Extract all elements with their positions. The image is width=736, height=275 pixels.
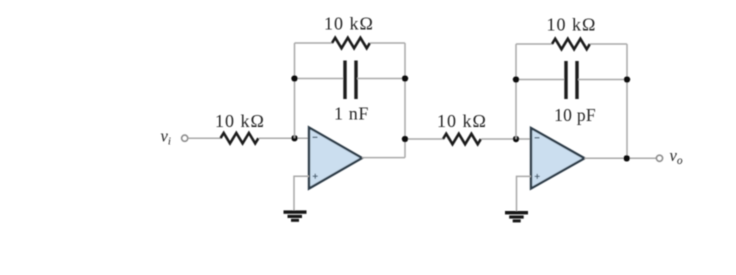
resistor RF2 10k — [552, 39, 590, 49]
svg-text:vo: vo — [670, 146, 683, 167]
wire U2 plus to ground — [517, 176, 532, 211]
ground 1 — [284, 210, 307, 221]
wire node B to R2 — [405, 138, 444, 140]
node vi input terminal — [182, 135, 188, 141]
svg-text:10 kΩ: 10 kΩ — [324, 14, 374, 34]
wire feedback2 top left — [516, 43, 553, 45]
U1 plus sign — [313, 175, 318, 177]
resistor RF1 10k — [332, 38, 370, 48]
wire cap1 left — [295, 78, 345, 80]
U1 minus sign — [313, 136, 318, 138]
node C junction dot — [513, 136, 519, 142]
node vo junction dot — [624, 155, 630, 161]
node A junction dot — [291, 135, 297, 141]
resistor R1 10k — [221, 133, 259, 143]
svg-text:10 kΩ: 10 kΩ — [547, 15, 597, 35]
U2 plus sign — [535, 175, 540, 177]
wire feedback1 left vertical — [294, 43, 296, 138]
ground 2 — [505, 211, 528, 222]
svg-text:vi: vi — [161, 127, 171, 148]
junction dot cap2 left — [513, 76, 519, 82]
wire U1 plus to ground — [294, 176, 309, 211]
svg-text:10 kΩ: 10 kΩ — [437, 111, 487, 131]
wire U2 output — [585, 157, 657, 159]
wire cap2 right — [578, 79, 627, 81]
wire feedback1 top left — [295, 42, 334, 44]
wire U1 output — [362, 157, 405, 159]
op-amp U1 — [309, 128, 362, 189]
capacitor C2 — [564, 61, 567, 99]
wire input to R1 — [188, 137, 221, 139]
junction dot cap1 left — [291, 75, 297, 81]
wire feedback1 top right — [370, 42, 405, 44]
junction dot cap1 right — [402, 75, 408, 81]
wire R2 to node C — [481, 138, 531, 140]
wire feedback2 left vertical — [515, 44, 517, 139]
op-amp U2 — [531, 128, 585, 189]
wire feedback2 right vertical — [626, 44, 628, 158]
junction dot cap2 right — [624, 76, 630, 82]
node B junction dot — [402, 136, 408, 142]
svg-text:1 nF: 1 nF — [334, 104, 369, 124]
U2 minus sign — [535, 137, 540, 139]
wire feedback1 right vertical — [404, 43, 406, 158]
wire cap1 right — [357, 78, 405, 80]
capacitor C1 — [343, 61, 346, 100]
svg-text:10 kΩ: 10 kΩ — [215, 111, 265, 131]
resistor R2 10k — [443, 134, 481, 144]
wire feedback2 top right — [590, 43, 627, 45]
node vo output terminal — [656, 155, 662, 161]
wire R1 to node A — [259, 137, 309, 139]
wire cap2 left — [516, 79, 565, 81]
svg-text:10 pF: 10 pF — [554, 105, 596, 125]
